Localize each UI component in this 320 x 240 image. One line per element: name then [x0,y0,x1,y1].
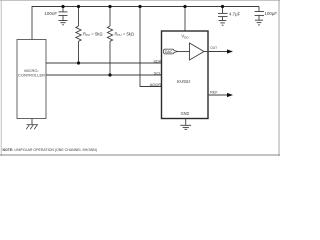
svg-text:DAC: DAC [165,50,173,54]
ground (MCU, hatched style) [26,125,38,130]
wire: IC ground stem [185,119,187,126]
wire: ADDR from rail down and to IC [140,7,162,87]
microcontroller U2 box [17,40,46,119]
svg-text:100nF: 100nF [44,11,57,16]
label VDD pin [181,34,189,40]
wire SDA [46,62,162,64]
svg-text:RPU = 5kΩ: RPU = 5kΩ [83,31,103,37]
wire: VDD drop to IC [184,7,186,32]
op-amp / IC U1 MAX5815 box [162,31,209,119]
svg-text:SDA: SDA [153,58,161,63]
svg-text:4.7µF: 4.7µF [229,11,241,16]
label MAX5815 [177,79,191,84]
svg-text:VDD: VDD [181,34,189,40]
page border left [0,0,2,156]
node: SCL / R2 junction [108,73,111,76]
svg-text:OUT: OUT [210,45,217,50]
wire: VDD top rail [32,7,259,40]
ground (C2) [219,21,227,26]
wire SCL [46,74,162,76]
page border bottom [0,154,280,156]
ground (IC GND) [180,125,191,129]
node: rail junction at R1 [77,5,80,8]
wire: MCU ground stem [31,119,33,125]
svg-text:MAX5815: MAX5815 [177,79,191,84]
op-amp buffer (triangle) [190,43,205,60]
resistor R1 (RPU = 5k, SDA pull-up) [76,7,81,64]
label SCL [154,70,162,75]
wire: REF with arrow [208,93,233,97]
label OUT pin [210,45,217,50]
capacitor C3 100uF [255,7,265,21]
label C2 value 4.7uF [229,11,241,16]
resistor R2 (RPU = 5k, SCL pull-up) [107,7,112,76]
label MICRO-CONTROLLER [18,68,45,77]
svg-text:GND: GND [181,111,190,116]
page border right [278,0,280,156]
ground (C3) [255,20,263,25]
wire: buffer to OUT pin [204,51,208,53]
label ADDR [150,82,162,87]
wire: DAC to buffer [178,51,190,53]
ground (C1) [59,21,68,25]
capacitor C2 4.7uF [218,7,228,21]
svg-text:ADDR: ADDR [150,82,162,87]
node: rail junction at R2 [108,5,111,8]
capacitor C1 100nF [59,7,68,21]
node: rail junction at ADDR wire [138,5,141,8]
label REF pin [210,90,218,95]
svg-text:100µF: 100µF [265,11,278,16]
wire: OUT with arrow [208,49,233,53]
label C1 value 100nF [44,11,57,16]
label DAC [165,50,173,54]
svg-text:NOTE: UNIPOLAR OPERATION (ONE: NOTE: UNIPOLAR OPERATION (ONE CHANNEL SH… [3,147,98,152]
label SDA [153,58,161,63]
label C3 value 100uF [265,11,278,16]
label R1 value RPU = 5k [83,31,103,37]
label GND pin [181,111,190,116]
node: rail junction at VDD [183,5,186,8]
svg-text:CONTROLLER: CONTROLLER [18,72,45,77]
svg-text:RPU = 5kΩ: RPU = 5kΩ [115,31,135,37]
node: SDA / R1 junction [77,61,80,64]
DAC block [164,49,178,54]
label R2 value RPU = 5k [115,31,135,37]
node: rail junction at C1 [61,5,64,8]
page border top [0,0,280,2]
note text [3,147,98,152]
node: rail junction at C2 [221,5,224,8]
svg-text:REF: REF [210,90,218,95]
